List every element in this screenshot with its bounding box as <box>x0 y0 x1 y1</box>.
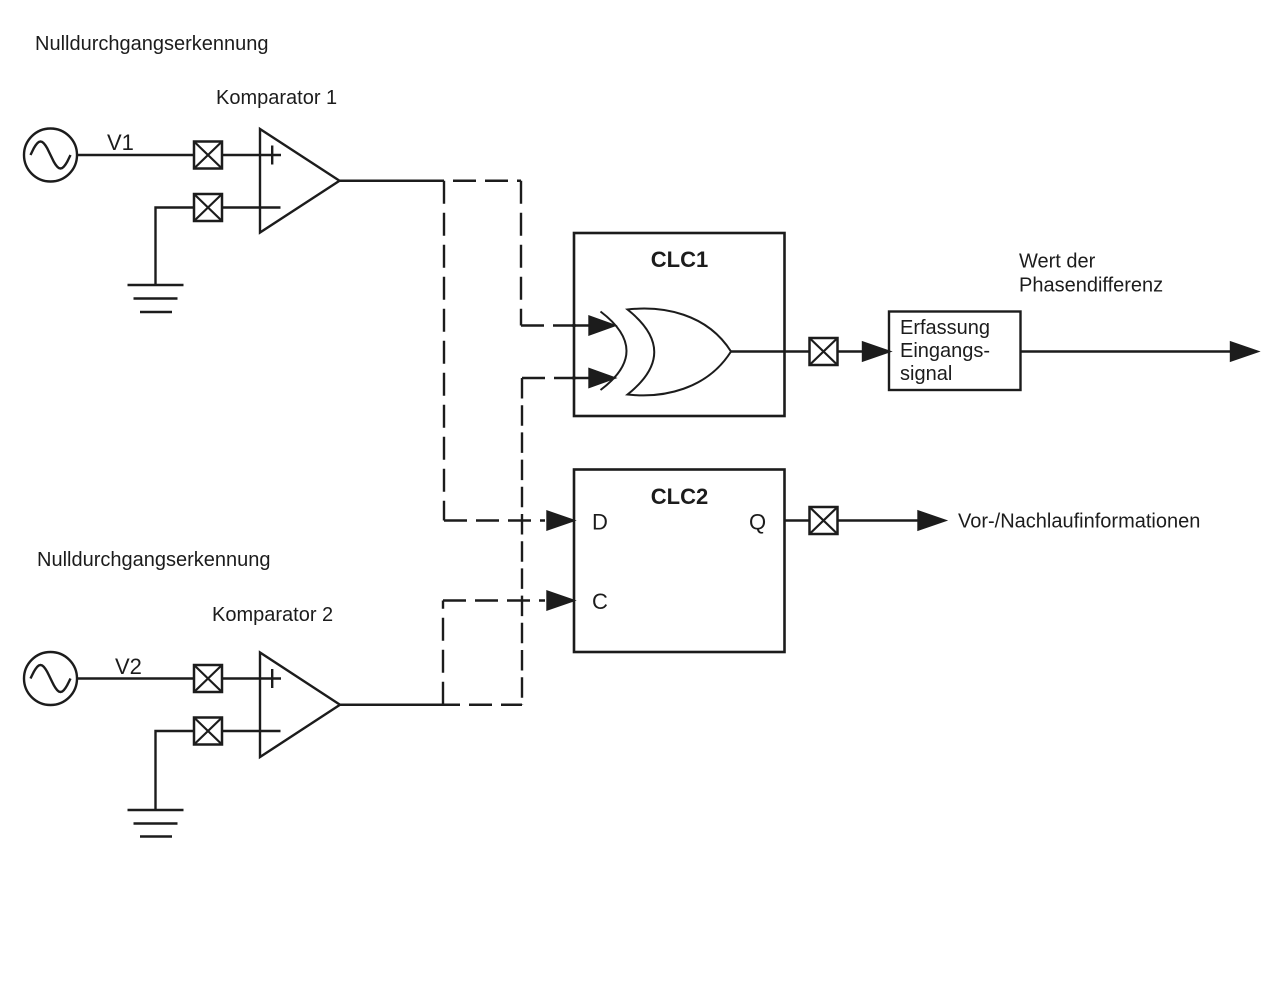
wire dashed horizontal to XOR input 1 <box>521 324 576 326</box>
arrowhead into Erfassung box <box>863 343 889 361</box>
svg-text:Vor-/Nachlaufinformationen: Vor-/Nachlaufinformationen <box>958 511 1200 533</box>
wire dashed vertical comp2 to XOR input 2 (x=522) <box>521 378 523 705</box>
XOR gate U1 in CLC1 <box>601 309 732 396</box>
wire dashed vertical comp2 to C (x=443) <box>442 601 444 705</box>
coupling box K4 (crossed square, ground to comparator 2 -) <box>194 718 222 745</box>
ground symbol 1 <box>128 285 184 312</box>
svg-text:Wert der: Wert der <box>1019 251 1096 273</box>
wire phase difference output <box>1021 350 1234 352</box>
wire XOR input 1 stub <box>572 324 590 326</box>
wire XOR input 2 stub <box>572 377 590 379</box>
wire K2 to comparator 1 minus input <box>222 206 281 208</box>
plus sign comparator 1 <box>271 146 273 165</box>
CLC1 box <box>574 233 785 416</box>
label Wert der Phasendifferenz <box>1019 251 1163 297</box>
plus sign comparator 2 <box>271 669 273 688</box>
coupling box K6 (crossed square, CLC2 Q output) <box>810 507 838 534</box>
svg-text:V2: V2 <box>115 654 142 679</box>
wire ground riser to K2 <box>156 208 195 286</box>
svg-text:V1: V1 <box>107 130 134 155</box>
comparator 2 (op-amp triangle) <box>260 653 340 758</box>
wire V1 to coupling box K1 <box>77 154 194 156</box>
svg-text:CLC1: CLC1 <box>651 247 708 272</box>
wire comparator 2 output <box>340 704 437 706</box>
Erfassung Eingangssignal box <box>889 312 1021 391</box>
CLC2 box <box>574 470 785 653</box>
source V1 (sine voltage source) <box>24 129 77 182</box>
coupling box K5 (crossed square, CLC1 output) <box>810 338 838 365</box>
coupling box K1 (crossed square, V1 to comparator +) <box>194 142 222 169</box>
comparator 1 (op-amp triangle) <box>260 129 340 233</box>
svg-text:signal: signal <box>900 363 952 385</box>
arrowhead XOR input 2 <box>590 369 615 387</box>
arrowhead Vor-/Nachlauf output <box>919 512 945 530</box>
wire K1 to comparator 1 plus input <box>222 154 281 156</box>
coupling box K3 (crossed square, V2 to comparator +) <box>194 665 222 692</box>
wire ground riser to K4 <box>156 731 195 810</box>
wire V2 to coupling box K3 <box>77 677 194 679</box>
label Erfassung Eingangs-signal <box>900 317 990 385</box>
arrowhead XOR input 1 <box>590 317 615 335</box>
coupling box K2 (crossed square, ground to comparator -) <box>194 194 222 221</box>
svg-text:Nulldurchgangserkennung: Nulldurchgangserkennung <box>35 33 269 55</box>
svg-text:D: D <box>592 510 608 535</box>
wire K5 to Erfassung arrow <box>838 350 865 352</box>
wire dashed vertical comp1 to D (x=444) <box>443 181 445 521</box>
wire dashed horizontal to C input <box>443 599 545 601</box>
wire K6 to arrow <box>838 519 921 521</box>
ground symbol 2 <box>128 810 184 837</box>
source V2 (sine voltage source) <box>24 652 77 705</box>
svg-text:Erfassung: Erfassung <box>900 317 990 339</box>
svg-text:Q: Q <box>749 510 766 535</box>
wire K3 to comparator 2 plus input <box>222 677 281 679</box>
wire K4 to comparator 2 minus input <box>222 730 281 732</box>
svg-text:Phasendifferenz: Phasendifferenz <box>1019 275 1163 297</box>
wire Q output to coupling box K6 <box>785 519 810 521</box>
arrowhead phase difference output <box>1231 343 1257 361</box>
svg-text:Komparator 2: Komparator 2 <box>212 604 333 626</box>
svg-text:Komparator 1: Komparator 1 <box>216 87 337 109</box>
wire XOR output to coupling box K5 <box>731 350 810 352</box>
wire dashed comp2 output horizontal <box>437 704 522 706</box>
wire dashed comp1 output to node split (horizontal) <box>444 180 521 182</box>
svg-text:Eingangs-: Eingangs- <box>900 340 990 362</box>
wire dashed horizontal to D input <box>444 519 545 521</box>
svg-text:Nulldurchgangserkennung: Nulldurchgangserkennung <box>37 549 271 571</box>
svg-text:CLC2: CLC2 <box>651 484 708 509</box>
wire comparator 1 output <box>340 180 445 182</box>
svg-text:C: C <box>592 589 608 614</box>
wire dashed vertical comp1 to XOR input 1 (x=521) <box>520 181 522 326</box>
arrowhead C input <box>548 592 574 610</box>
arrowhead D input <box>548 512 574 530</box>
wire dashed horizontal to XOR input 2 <box>522 377 576 379</box>
